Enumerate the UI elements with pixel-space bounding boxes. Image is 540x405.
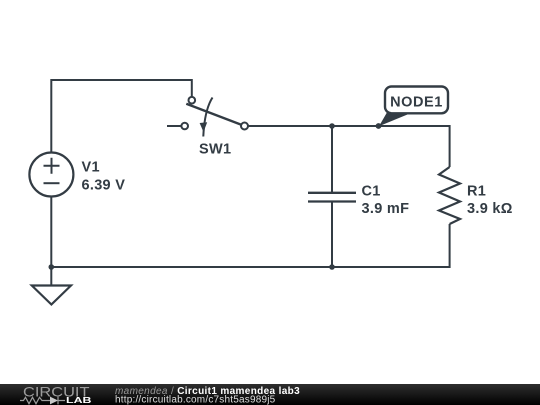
svg-text:6.39 V: 6.39 V (82, 178, 126, 194)
svg-text:3.9 mF: 3.9 mF (362, 201, 410, 217)
svg-text:C1: C1 (362, 184, 381, 200)
svg-text:V1: V1 (82, 160, 100, 176)
svg-text:3.9 kΩ: 3.9 kΩ (467, 201, 513, 217)
svg-text:NODE1: NODE1 (390, 95, 443, 111)
svg-text:R1: R1 (467, 184, 486, 200)
svg-text:LAB: LAB (66, 395, 92, 405)
svg-text:http://circuitlab.com/c7sht5as: http://circuitlab.com/c7sht5as989j5 (115, 394, 276, 405)
svg-text:SW1: SW1 (199, 141, 231, 157)
